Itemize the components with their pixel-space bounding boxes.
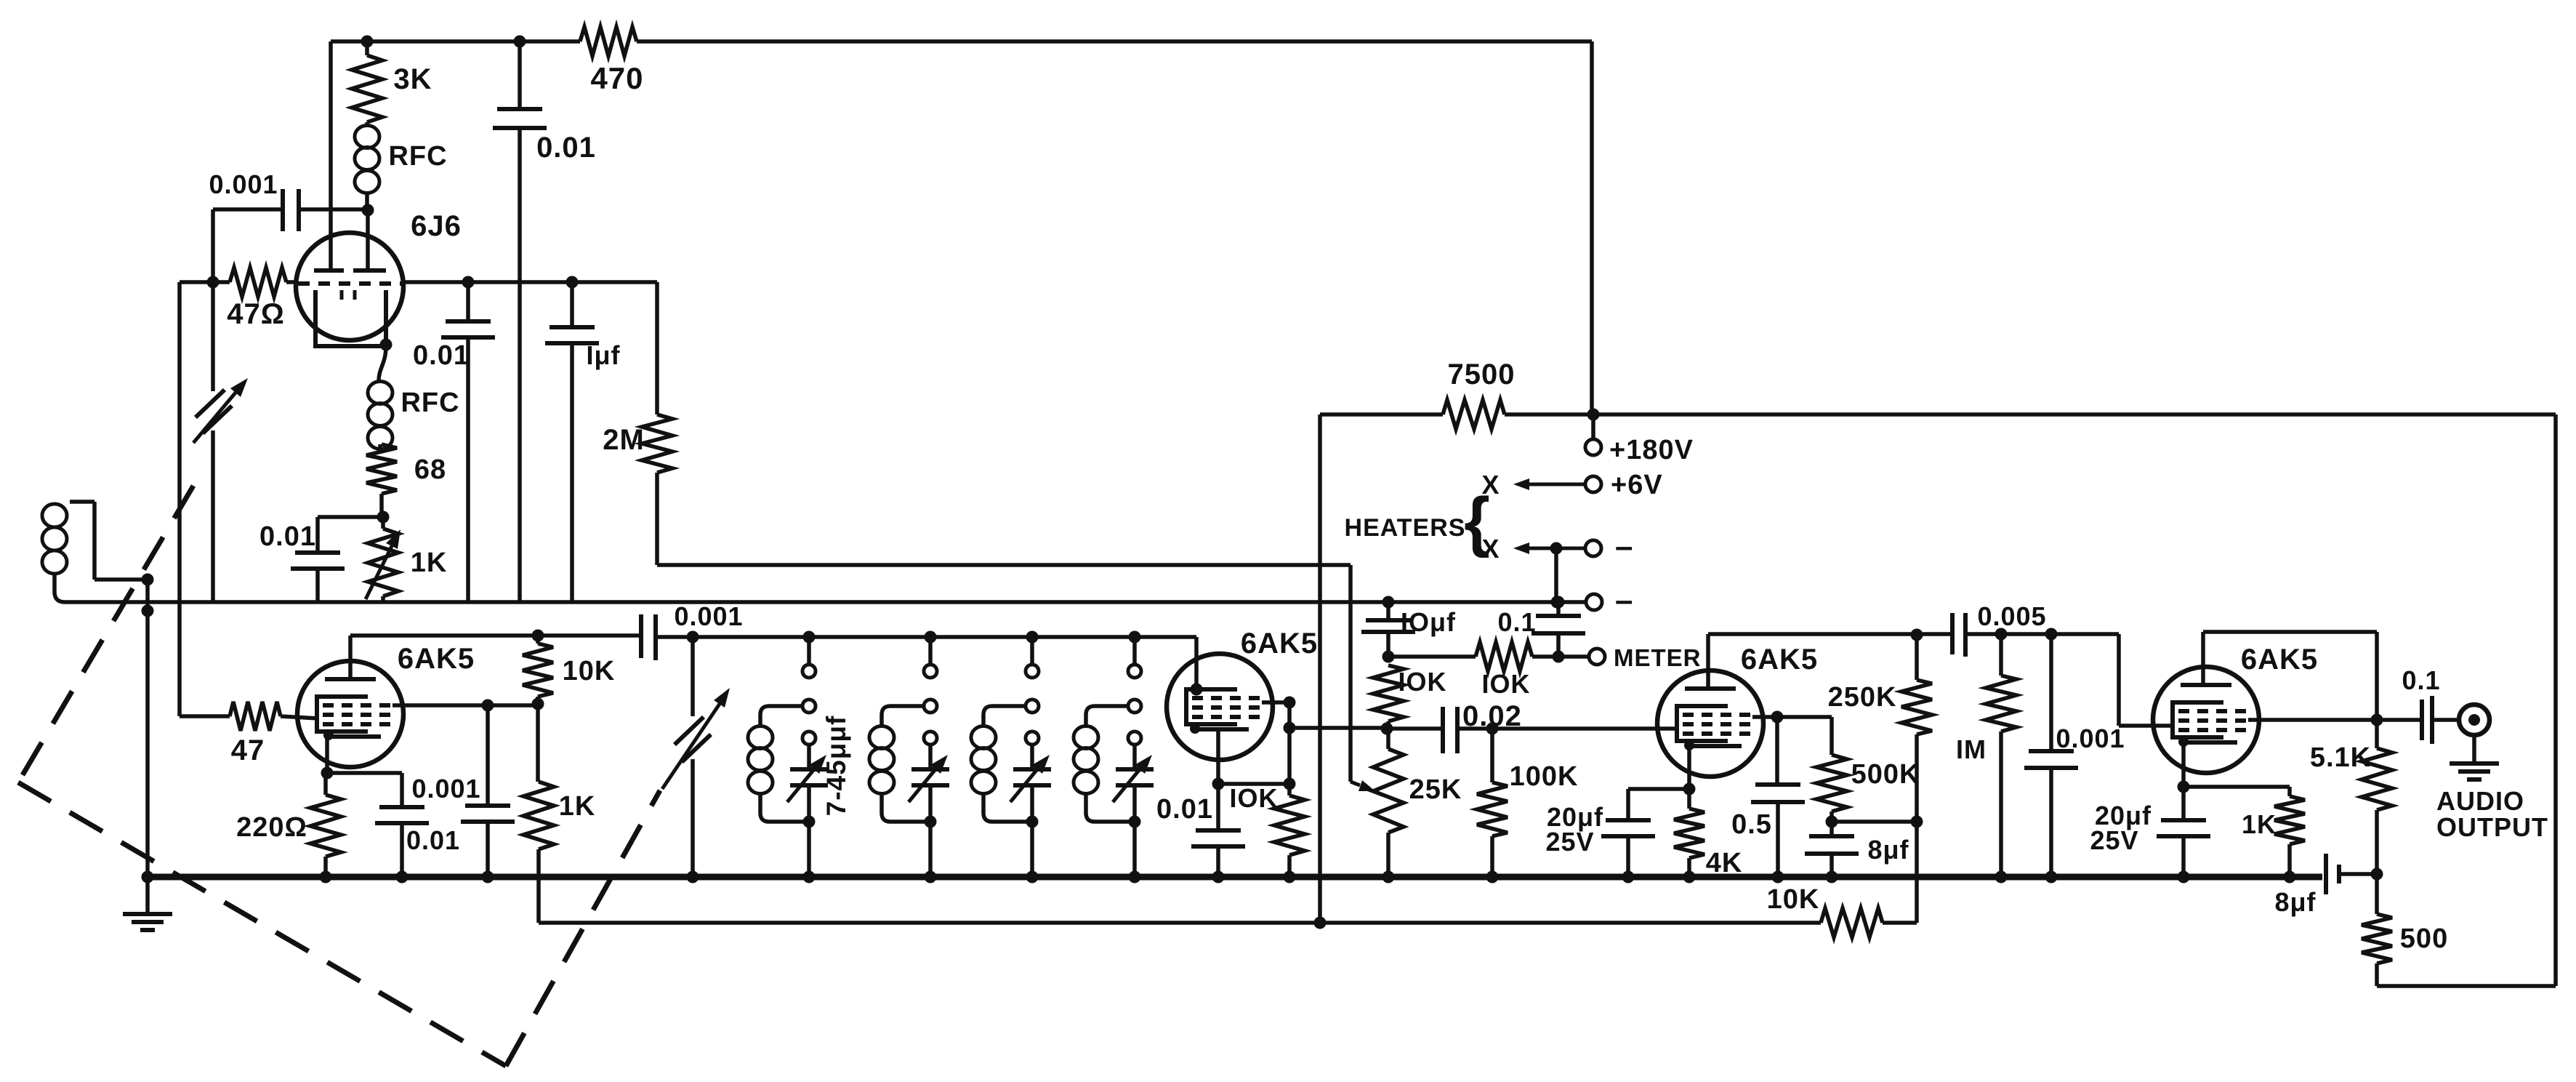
capacitor 20uf 25V cathode bypass (1628, 787, 1689, 791)
capacitor 0.01 V2 cathode (1216, 730, 1220, 784)
node ground bus junction (320, 871, 332, 883)
wire V1 plate lead to coupling line (348, 636, 353, 679)
tube 6AK5 mixer V2 (1167, 654, 1273, 760)
wire chassis return line y=828 (65, 600, 1587, 604)
capacitor 0.01 cathode bypass (318, 515, 383, 519)
svg-text:0.1: 0.1 (2402, 665, 2440, 695)
svg-text:6AK5: 6AK5 (398, 643, 475, 675)
terminal heater minus 2 (1551, 596, 1563, 609)
node ground bus junction (1486, 871, 1499, 883)
capacitor variable trimmer band 4 (1132, 745, 1137, 768)
wire heater return drop (1550, 542, 1563, 555)
capacitor 20uf 25V output cathode (2181, 787, 2186, 819)
terminal METER (1589, 649, 1605, 665)
node 250K bottom (1911, 816, 1923, 828)
switch contact low band 1 (802, 732, 816, 745)
inductor tuning coil L4 (1086, 706, 1128, 726)
variable capacitor osc tank (196, 390, 225, 417)
resistor 25K AVC pot (1386, 729, 1390, 749)
svg-text:HEATERS: HEATERS (1345, 514, 1466, 542)
switch contact stub band 2 (925, 631, 937, 644)
node ground bus junction (925, 871, 937, 883)
node coil/cap bottom band 1 (803, 816, 816, 828)
wire V3 cathode (1687, 747, 1691, 789)
wire gang dashed link bottom (18, 782, 506, 1066)
switch contact low band 4 (1128, 732, 1141, 745)
wire oscillator output line (402, 280, 657, 284)
node 6J6 cathode (380, 339, 393, 351)
svg-text:25V: 25V (1545, 827, 1594, 857)
node ground bus junction (1129, 871, 1141, 883)
node ground bus junction (1026, 871, 1039, 883)
svg-text:7500: 7500 (1448, 358, 1516, 390)
resistor 500 B+ return (2375, 874, 2379, 914)
node AVC filter top (1382, 596, 1395, 609)
switch contact mid band 2 (924, 700, 937, 713)
resistor 47Ω (230, 268, 286, 297)
node screen/0.001 bypass (482, 700, 494, 712)
node 5.1K bottom bus (2371, 868, 2383, 881)
resistor 250K plate load (1911, 629, 1923, 641)
resistor 220Ω cathode bias (323, 773, 328, 795)
wire AVC line from 2M (655, 473, 659, 565)
node ground bus junction (1622, 871, 1635, 883)
wire top bus drop to +180V rail (1590, 41, 1594, 414)
node ground bus junction (482, 871, 494, 883)
node 1M top (1995, 628, 2008, 641)
svg-text:1K: 1K (559, 791, 596, 822)
svg-text:7-45μμf: 7-45μμf (821, 716, 851, 817)
node output junction (2371, 714, 2383, 726)
capacitor 0.01 osc output bypass (462, 276, 475, 289)
wire gang dashed link right (506, 790, 660, 1066)
resistor 7500 dropping (1443, 400, 1505, 429)
wire mixer grid 47 line (180, 714, 230, 718)
capacitor 0.001 coupling (639, 614, 643, 658)
node ground bus junction (1382, 871, 1395, 883)
capacitor variable trimmer band 1 (807, 745, 811, 768)
switch contact mid band 1 (802, 700, 816, 713)
svg-text:RFC: RFC (388, 141, 447, 172)
svg-text:AUDIO: AUDIO (2436, 786, 2524, 816)
svg-text:10K: 10K (1767, 884, 1820, 915)
svg-text:IOK: IOK (1398, 667, 1446, 697)
wire 1K bottom to feedback line (536, 849, 541, 923)
wire V3 plate to 0.005 line (1706, 634, 1710, 689)
tube 6J6 U1 (296, 233, 403, 340)
node 100K grid return (1486, 723, 1499, 735)
capacitor variable trimmer band 2 (928, 745, 933, 768)
svg-text:0.01: 0.01 (413, 340, 470, 371)
capacitor 8uf output bus (2324, 854, 2328, 894)
node 10K bottom 1K top (532, 698, 544, 710)
node ground bus junction (2284, 871, 2296, 883)
node ground bus junction (1826, 871, 1838, 883)
svg-text:X: X (1481, 470, 1500, 500)
svg-text:0.01: 0.01 (406, 825, 460, 855)
wire jog to V4 grid (2117, 634, 2121, 726)
svg-text:68: 68 (414, 454, 446, 485)
svg-text:470: 470 (590, 61, 643, 95)
wire 6J6 grid line with 47 ohm (180, 280, 230, 284)
node ground bus junction (1995, 871, 2008, 883)
wire antenna ground drop (145, 580, 150, 877)
wire gang dashed link left (18, 486, 193, 782)
resistor 10K AVC vertical (1373, 665, 1404, 721)
wire V2 grid feed (1194, 637, 1199, 691)
svg-text:5.1K: 5.1K (2310, 742, 2371, 773)
inductor antenna coil (70, 500, 94, 504)
node coil/cap bottom band 3 (1026, 816, 1039, 828)
node coil/cap bottom band 4 (1129, 816, 1141, 828)
resistor 500K (1777, 715, 1832, 719)
wire right border B+ (2553, 414, 2558, 986)
switch contact low band 2 (924, 732, 937, 745)
resistor 1M grid leak (1999, 634, 2003, 676)
tube 6AK5 first AF V3 (1657, 670, 1763, 777)
svg-text:–: – (1615, 529, 1633, 564)
node antenna top (142, 574, 154, 586)
wire +180V rail (1320, 412, 1443, 417)
node ground bus junction (1284, 871, 1296, 883)
svg-text:10K: 10K (563, 656, 616, 686)
svg-text:220Ω: 220Ω (236, 812, 307, 843)
inductor RFC plate choke (365, 122, 369, 125)
svg-text:0.005: 0.005 (1977, 601, 2046, 631)
node ground bus junction (142, 871, 154, 883)
svg-text:0.001: 0.001 (2056, 724, 2125, 753)
svg-text:0.01: 0.01 (259, 521, 316, 552)
inductor tuning coil L1 (760, 706, 802, 726)
node 500K/8uf (1826, 816, 1838, 828)
node ground bus junction (687, 871, 699, 883)
svg-text:IOμf: IOμf (1401, 607, 1456, 637)
resistor 1K (536, 704, 540, 782)
resistor 3K (365, 41, 369, 55)
svg-text:500: 500 (2400, 923, 2448, 954)
capacitor 0.1 meter bypass (1553, 596, 1565, 609)
svg-text:25V: 25V (2090, 825, 2138, 855)
svg-text:250K: 250K (1828, 682, 1897, 713)
node ground bus junction (2178, 871, 2190, 883)
node 3K top (361, 36, 374, 48)
node meter cap junction (1553, 651, 1565, 663)
tube 6AK5 output V4 (2153, 667, 2259, 773)
inductor RFC cathode choke (379, 346, 386, 381)
capacitor variable main tuning (687, 631, 699, 644)
tube 6AK5 first RF amplifier V1 (297, 661, 403, 767)
wire V1 cathode (325, 737, 329, 773)
capacitor 0.01 cathode bypass V1 (327, 771, 402, 775)
svg-text:Iμf: Iμf (586, 340, 620, 370)
svg-text:6AK5: 6AK5 (1741, 644, 1818, 676)
resistor 10K meter series (1388, 654, 1476, 659)
resistor 1K output cathode (2183, 785, 2290, 789)
wire V3 plate exit right (1752, 715, 1777, 719)
svg-text:IOK: IOK (1229, 783, 1278, 813)
node 0.001 top (2045, 628, 2058, 641)
svg-text:+6V: +6V (1611, 470, 1663, 500)
wire 7500 screen drop vertical (1318, 414, 1322, 923)
resistor 2M grid leak (655, 282, 659, 414)
resistor 68 (378, 444, 382, 449)
svg-text:0.01: 0.01 (1156, 794, 1213, 825)
resistor 47 grid stopper (230, 702, 281, 731)
svg-text:2M: 2M (603, 424, 645, 456)
resistor 100K grid leak (1490, 729, 1494, 782)
capacitor 0.01 B+ bypass (514, 36, 526, 48)
capacitor 0.5 plate bypass (1775, 717, 1779, 783)
svg-text:6AK5: 6AK5 (2241, 644, 2318, 676)
node +180V tap (1587, 409, 1600, 421)
capacitor 0.001 oscillator feedback (213, 207, 281, 212)
resistor 5.1K (2375, 720, 2379, 748)
inductor tuning coil L3 (983, 706, 1026, 726)
ground antenna/chassis (145, 877, 150, 913)
resistor 1K variable cathode (381, 517, 385, 529)
svg-text:47Ω: 47Ω (227, 298, 285, 330)
svg-text:–: – (1615, 582, 1633, 618)
switch contact mid band 3 (1026, 700, 1039, 713)
svg-text:3K: 3K (393, 63, 432, 95)
svg-text:8μf: 8μf (1867, 835, 1909, 865)
node coil/cap bottom band 2 (925, 816, 937, 828)
wire feedback line (539, 921, 1821, 925)
switch contact stub band 4 (1129, 631, 1141, 644)
node V2 cathode net (1284, 778, 1296, 790)
resistor 10K V2 cathode (1287, 784, 1292, 796)
wire V4 cathode (2181, 743, 2186, 787)
wire V2 plate exit (1262, 700, 1289, 705)
svg-text:25K: 25K (1409, 774, 1462, 805)
node ground bus junction (396, 871, 408, 883)
wire V4 plate top lead (2201, 632, 2205, 685)
svg-text:0.5: 0.5 (1731, 809, 1772, 840)
wire V2 signal to detector (1289, 726, 1385, 730)
svg-text:1K: 1K (2242, 809, 2277, 839)
switch contact low band 3 (1026, 732, 1039, 745)
capacitor variable trimmer band 3 (1030, 745, 1034, 768)
wire top B+ bus (331, 39, 580, 44)
svg-text:500K: 500K (1851, 759, 1920, 790)
resistor 10K feedback (1821, 908, 1883, 937)
svg-text:X: X (1481, 534, 1500, 564)
svg-text:+180V: +180V (1609, 435, 1694, 465)
switch contact stub band 3 (1026, 631, 1039, 644)
svg-text:6J6: 6J6 (411, 210, 462, 242)
svg-text:47: 47 (231, 734, 265, 766)
node RFC bottom / 0.001 feedback (362, 204, 374, 217)
ground audio jack (2472, 735, 2476, 762)
resistor 4K cathode (1687, 789, 1691, 809)
capacitor 0.001 tone (2049, 634, 2053, 750)
wire 6J6 left plate lead (329, 41, 333, 270)
node 68/1K junction (377, 511, 390, 524)
wire osc tank vertical with variable capacitor (211, 209, 215, 282)
capacitor 1uf (566, 276, 579, 289)
resistor 10K V1 plate load (532, 630, 544, 642)
capacitor 0.1 output coupling (2377, 718, 2420, 722)
terminal +180V (1591, 414, 1595, 439)
capacitor 0.02 coupling (1387, 726, 1441, 731)
wire V1 screen exit (393, 703, 538, 708)
resistor 470 on top bus (580, 27, 637, 56)
switch contact stub band 1 (803, 631, 816, 644)
svg-text:RFC: RFC (401, 388, 459, 418)
wire ground bus (148, 874, 2322, 881)
capacitor 8uf AF decoupling (1830, 822, 1834, 835)
wire coupling line y=874 to switch (350, 633, 639, 638)
wire V4 output exit (2248, 718, 2377, 722)
svg-text:1K: 1K (411, 548, 448, 578)
terminal audio output jack (2459, 705, 2490, 735)
wire grid line down to mixer (177, 282, 182, 716)
wire feedback to 250K node (1915, 822, 1919, 923)
svg-text:0.001: 0.001 (674, 601, 743, 631)
svg-text:0.1: 0.1 (1497, 607, 1536, 637)
svg-text:IM: IM (1956, 734, 1987, 764)
switch contact mid band 4 (1128, 700, 1141, 713)
node 10uf bottom (1382, 651, 1395, 663)
node 47ohm/0.001 branch (207, 276, 220, 289)
node V2 signal takeoff (1284, 722, 1296, 734)
svg-text:0.001: 0.001 (209, 169, 278, 199)
svg-text:METER: METER (1614, 644, 1702, 671)
capacitor 10uf (1386, 602, 1390, 619)
node ground bus junction (1212, 871, 1225, 883)
node ground bus junction (803, 871, 816, 883)
svg-text:100K: 100K (1510, 761, 1579, 792)
node detector load tap (1381, 723, 1393, 735)
svg-text:8μf: 8μf (2274, 887, 2316, 917)
svg-text:6AK5: 6AK5 (1241, 628, 1318, 660)
svg-text:IOK: IOK (1481, 669, 1530, 699)
node ground bus junction (2045, 871, 2058, 883)
svg-text:OUTPUT: OUTPUT (2436, 812, 2548, 842)
capacitor 0.001 screen bypass (486, 705, 490, 804)
svg-text:0.001: 0.001 (411, 774, 480, 804)
node ground bus junction (1772, 871, 1784, 883)
node ground bus junction (1683, 871, 1696, 883)
svg-text:0.01: 0.01 (536, 132, 596, 164)
inductor tuning coil L2 (882, 706, 924, 726)
capacitor 0.005 coupling (1950, 613, 1955, 654)
